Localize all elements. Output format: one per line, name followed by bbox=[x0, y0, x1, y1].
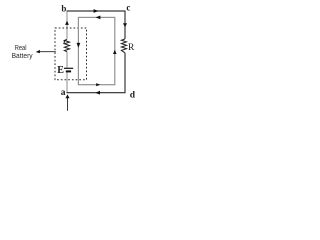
label pointer arrow from Real Battery text to dashed box bbox=[39, 51, 56, 53]
wire: inner electron-flow loop (gray rectangle) bbox=[78, 17, 114, 84]
arrow: electron flow down on inner left wire bbox=[77, 43, 81, 48]
resistor R (external load, zigzag) bbox=[121, 39, 126, 53]
wire: outer bottom a-d bbox=[67, 92, 126, 94]
svg-text:R: R bbox=[128, 43, 135, 53]
arrow: electron flow right on inner bottom wire bbox=[96, 83, 100, 86]
arrow: current left on bottom wire bbox=[95, 91, 100, 95]
arrow: electron flow up on inner right wire bbox=[113, 50, 117, 54]
dashed box around real battery bbox=[55, 28, 87, 80]
wire: outer right c-d (above and below R) bbox=[124, 11, 126, 93]
svg-text:b: b bbox=[61, 3, 66, 13]
pointer arrow below node a bbox=[67, 98, 69, 111]
svg-text:Battery: Battery bbox=[12, 51, 33, 60]
svg-text:E: E bbox=[57, 65, 64, 76]
svg-text:c: c bbox=[126, 2, 130, 12]
resistor r (internal resistance, zigzag) bbox=[64, 39, 69, 51]
arrow: current down on right wire bbox=[123, 23, 127, 27]
svg-text:d: d bbox=[130, 91, 136, 101]
svg-text:a: a bbox=[61, 88, 66, 98]
arrow: current up in battery branch bbox=[65, 21, 69, 25]
wire: battery branch b-a (left vertical, gray) bbox=[66, 12, 68, 93]
arrow: electron flow left on inner top wire bbox=[96, 16, 101, 20]
wire: outer top b-c bbox=[67, 10, 126, 12]
arrow: current right on top wire bbox=[94, 9, 99, 13]
battery E plates (long positive top, short negative bottom) bbox=[64, 67, 73, 69]
